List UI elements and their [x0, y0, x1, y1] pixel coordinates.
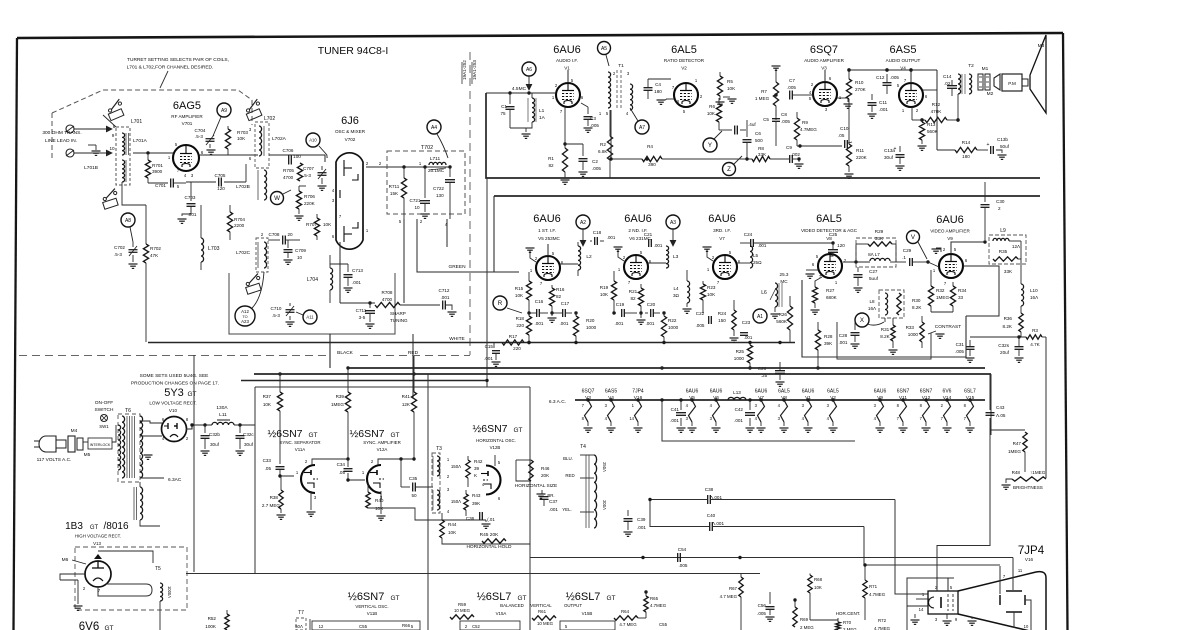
wire plate V12B right — [495, 452, 530, 466]
svg-text:6SN7: 6SN7 — [920, 389, 933, 395]
test point R — [493, 296, 507, 310]
svg-text:C706: C706 — [283, 148, 294, 153]
svg-text:V10: V10 — [169, 408, 178, 413]
svg-text:300 OHM TRANS.: 300 OHM TRANS. — [42, 130, 81, 136]
svg-text:C710: C710 — [271, 306, 282, 311]
svg-text:3900: 3900 — [152, 169, 163, 174]
svg-text:C55: C55 — [659, 622, 668, 627]
main bus rail2 — [254, 373, 991, 375]
svg-text:C721: C721 — [410, 198, 421, 203]
svg-text:4.7 MEG: 4.7 MEG — [720, 594, 738, 599]
CRT horizontal deflection plates — [999, 595, 1001, 605]
svg-text:.1: .1 — [902, 255, 906, 260]
CRT neck — [928, 591, 958, 614]
svg-text:HOR.CENT.: HOR.CENT. — [836, 611, 861, 616]
svg-text:L701A: L701A — [133, 138, 148, 144]
vertical line from tuner to bottom — [193, 355, 195, 572]
svg-text:SW1: SW1 — [99, 424, 109, 429]
svg-text:33K: 33K — [1004, 269, 1013, 274]
svg-text:220: 220 — [513, 346, 521, 351]
test point Z — [723, 163, 736, 176]
ground T6 center — [145, 451, 152, 453]
svg-text:C17: C17 — [561, 301, 570, 306]
video out enclosure lines — [802, 280, 966, 357]
svg-text:6AU6: 6AU6 — [553, 44, 581, 56]
svg-text:V16: V16 — [1025, 557, 1034, 562]
svg-text:R9: R9 — [802, 120, 808, 125]
svg-text:½6SL7: ½6SL7 — [566, 591, 601, 603]
sync enclosure box — [254, 387, 256, 574]
svg-text:L10: L10 — [1030, 288, 1038, 293]
svg-text:10: 10 — [1024, 624, 1029, 629]
heater bus junction dots — [586, 398, 589, 401]
svg-text:.5-3: .5-3 — [195, 134, 203, 139]
wire R701 top — [147, 155, 149, 160]
wire right column vert — [960, 275, 988, 277]
svg-text:C7: C7 — [789, 78, 795, 83]
svg-text:L2: L2 — [586, 254, 592, 260]
wire V2 plate top — [650, 78, 674, 88]
svg-text:10K: 10K — [448, 530, 457, 535]
speaker cone M3 — [1030, 35, 1046, 113]
svg-text:SYNC. SEPARATOR: SYNC. SEPARATOR — [280, 440, 321, 445]
svg-text:220: 220 — [516, 323, 524, 328]
svg-text:390: 390 — [648, 162, 656, 167]
svg-text:L1: L1 — [539, 108, 545, 114]
dashed vertical chassis divider — [469, 52, 471, 355]
svg-text:10 MEG: 10 MEG — [537, 621, 554, 626]
svg-text:120: 120 — [217, 186, 225, 191]
svg-text:5Y3: 5Y3 — [164, 387, 184, 399]
wire V9 screen to L9 — [951, 242, 985, 254]
svg-text:A5: A5 — [601, 46, 607, 52]
wire if plate V5 to V6 — [560, 263, 578, 265]
svg-text:20K: 20K — [541, 473, 550, 478]
svg-text:A1: A1 — [757, 314, 763, 320]
svg-text:GT: GT — [308, 432, 317, 439]
svg-text:130: 130 — [436, 193, 444, 198]
arrow Y — [714, 131, 722, 139]
svg-text:L3: L3 — [673, 254, 679, 260]
svg-text:C55: C55 — [359, 624, 368, 629]
B+ rail upper — [486, 93, 1040, 178]
svg-text:C40: C40 — [707, 513, 716, 518]
arrow R — [507, 308, 522, 313]
svg-text:V9: V9 — [947, 236, 953, 241]
tube V3 6SQ7 — [813, 82, 837, 106]
arrow A9 to C704 — [213, 117, 221, 136]
ground C19 C20 — [640, 313, 642, 318]
tube V4 6AS5 — [899, 83, 923, 107]
svg-text:C12: C12 — [876, 75, 885, 80]
svg-text:L703: L703 — [208, 246, 220, 252]
svg-text:33: 33 — [958, 295, 964, 300]
arrow V — [918, 242, 927, 259]
wire c16 row — [529, 312, 536, 314]
svg-text:L704: L704 — [307, 277, 318, 283]
tube V13 1B3 — [85, 561, 111, 587]
svg-text:L5: L5 — [753, 253, 759, 258]
coil L702C — [264, 242, 267, 268]
page frame border — [17, 33, 1063, 38]
wire V12A plate right — [413, 440, 415, 452]
svg-text:R30: R30 — [912, 298, 921, 303]
svg-text:C37: C37 — [549, 499, 558, 504]
svg-text:.5-3: .5-3 — [114, 252, 122, 257]
svg-text:10K: 10K — [237, 136, 246, 141]
wire r68 bottom — [810, 619, 838, 621]
svg-text:.001: .001 — [734, 418, 743, 423]
svg-text:6V6: 6V6 — [79, 621, 99, 630]
svg-text:.001: .001 — [188, 212, 197, 217]
main bus rail1 — [348, 367, 985, 369]
svg-text:1000: 1000 — [668, 325, 679, 330]
vertical line x428 — [427, 374, 429, 630]
svg-text:↑1MEG: ↑1MEG — [1030, 470, 1046, 475]
CRT pin1 pin14 wires — [916, 598, 930, 600]
svg-text:10K: 10K — [814, 585, 822, 590]
svg-text:L8: L8 — [869, 299, 875, 304]
wire V8 to L7 — [843, 261, 870, 263]
ground R7 top — [775, 68, 777, 72]
svg-text:V13: V13 — [93, 541, 101, 546]
svg-text:C38: C38 — [705, 487, 714, 492]
svg-text:V701: V701 — [182, 121, 193, 126]
svg-text:AUDIO OUTPUT: AUDIO OUTPUT — [886, 58, 921, 63]
svg-text:R66: R66 — [402, 623, 411, 628]
svg-text:.001: .001 — [670, 418, 679, 423]
svg-text:8.2K: 8.2K — [912, 305, 922, 310]
wire T5 down — [159, 601, 161, 630]
coil L702B — [264, 170, 267, 200]
svg-text:M3: M3 — [1038, 43, 1045, 49]
svg-text:.001: .001 — [637, 525, 646, 530]
svg-text:R704: R704 — [234, 217, 245, 222]
wire V701 grid left — [133, 152, 173, 154]
test point A7 — [635, 120, 649, 134]
svg-text:C709: C709 — [295, 248, 306, 253]
svg-text:V3: V3 — [821, 66, 827, 71]
svg-text:GT: GT — [390, 432, 399, 439]
svg-text:C705: C705 — [215, 173, 226, 178]
ground L1 — [521, 127, 532, 129]
svg-text:19A1-253: 19A1-253 — [472, 60, 477, 80]
wire V9 plate right — [963, 266, 999, 316]
wire T4 red — [580, 477, 594, 479]
tube V10 5Y3GT — [162, 417, 187, 442]
tuner turret dashed outline — [52, 90, 252, 113]
wire x330 tuner to bottom — [329, 334, 331, 368]
svg-text:GT: GT — [517, 595, 526, 602]
wire bottom right of vert — [638, 617, 646, 619]
svg-text:.001: .001 — [549, 507, 558, 512]
svg-text:C32s: C32s — [998, 343, 1009, 348]
svg-text:7JP4: 7JP4 — [632, 389, 644, 395]
svg-text:270K: 270K — [855, 87, 867, 92]
wire brightness feed down to crt — [937, 430, 990, 578]
svg-text:.05: .05 — [838, 133, 845, 138]
wire C34 to V12A grid — [348, 473, 365, 480]
svg-text:.005: .005 — [781, 119, 790, 124]
svg-text:R21: R21 — [629, 289, 638, 294]
svg-text:GT: GT — [513, 427, 522, 434]
svg-text:6AG5: 6AG5 — [173, 100, 201, 112]
coil L8 dashed box — [879, 290, 904, 318]
svg-text:6.3 A.C.: 6.3 A.C. — [549, 399, 566, 405]
B+ rail lower — [494, 195, 1040, 197]
svg-text:YEL.: YEL. — [562, 507, 572, 512]
svg-text:A2: A2 — [580, 220, 586, 226]
test point X — [855, 313, 869, 327]
svg-text:.001: .001 — [535, 321, 544, 326]
wire T3 to grid — [440, 486, 460, 488]
svg-text:V11A: V11A — [295, 447, 305, 452]
svg-text:V12A: V12A — [377, 447, 388, 452]
wire if plate V6 to V7 — [648, 262, 666, 264]
rail corner right — [1039, 178, 1041, 196]
svg-text:R12: R12 — [932, 102, 941, 107]
svg-text:1B3: 1B3 — [65, 521, 83, 532]
svg-text:L4: L4 — [673, 286, 679, 291]
svg-text:.001: .001 — [441, 295, 450, 300]
V5 grid ground — [530, 250, 536, 262]
test point A9 — [217, 103, 231, 117]
coil L3 — [666, 246, 669, 268]
svg-text:4700: 4700 — [283, 175, 294, 180]
svg-text:T1: T1 — [618, 63, 624, 69]
wire V9 plate up — [962, 260, 988, 262]
wire T702 pin4 down green — [446, 219, 448, 247]
svg-text:.001: .001 — [560, 321, 569, 326]
svg-text:R701: R701 — [152, 163, 163, 168]
wire speaker return — [957, 94, 959, 120]
V7 grid ground — [707, 249, 713, 261]
svg-text:.005: .005 — [590, 123, 599, 128]
arrow W — [283, 190, 291, 194]
svg-text:VERTICAL: VERTICAL — [530, 603, 552, 608]
V12A plate to R41 — [378, 459, 414, 465]
svg-text:C32c: C32c — [243, 432, 254, 437]
turret switch lower A12 — [241, 274, 265, 297]
svg-text:R44: R44 — [448, 522, 457, 527]
V13 filament loop — [98, 584, 152, 596]
svg-text:HORIZONTAL HOLD: HORIZONTAL HOLD — [466, 544, 512, 550]
svg-text:4.7MEG: 4.7MEG — [650, 603, 667, 608]
V10 output wire — [186, 425, 212, 429]
svg-text:GT: GT — [390, 595, 399, 602]
svg-text:C8: C8 — [781, 112, 787, 117]
svg-text:19A1-252: 19A1-252 — [462, 60, 467, 80]
svg-text:C5: C5 — [763, 117, 769, 122]
svg-text:T2: T2 — [968, 63, 974, 69]
small box V15B — [560, 621, 615, 630]
svg-text:6AL5: 6AL5 — [827, 389, 839, 395]
svg-text:150Λ: 150Λ — [451, 499, 461, 504]
svg-text:Z: Z — [727, 166, 731, 173]
svg-text:C16: C16 — [535, 299, 544, 304]
arrow A5 — [606, 55, 609, 66]
svg-text:.001: .001 — [607, 235, 616, 240]
wire T4 bottom to left — [649, 480, 651, 540]
svg-text:GT: GT — [90, 525, 99, 531]
V8 grid ground — [812, 268, 818, 276]
svg-text:4.7MEG: 4.7MEG — [800, 127, 817, 132]
svg-text:SHARP: SHARP — [390, 311, 406, 316]
svg-text:R72: R72 — [878, 618, 887, 623]
svg-text:V5 253MC: V5 253MC — [538, 236, 560, 241]
svg-text:.4uf: .4uf — [748, 122, 756, 127]
svg-text:4.7 MEG: 4.7 MEG — [619, 622, 637, 627]
test point W — [271, 192, 284, 205]
test point A3 — [666, 215, 680, 229]
svg-text:R39: R39 — [336, 394, 345, 399]
arrow A3 — [672, 229, 674, 244]
svg-text:6SL7: 6SL7 — [964, 389, 976, 395]
svg-text:A3: A3 — [670, 220, 676, 226]
arrow A12 to L702C — [252, 272, 264, 308]
rail junction dots — [278, 372, 281, 375]
svg-text:Λ.001: Λ.001 — [712, 521, 724, 526]
svg-text:W: W — [274, 195, 280, 202]
tube V1 6AU6 — [556, 83, 580, 107]
svg-text:.001: .001 — [758, 243, 767, 248]
svg-text:R6: R6 — [709, 104, 715, 109]
svg-text:R32: R32 — [936, 288, 945, 293]
svg-text:6AU6: 6AU6 — [755, 389, 768, 395]
arrow A6 down — [528, 76, 530, 88]
ground V3 k — [837, 97, 848, 99]
wire T4 blu — [580, 454, 594, 456]
svg-text:12Λ: 12Λ — [1012, 244, 1021, 249]
wire red drop — [412, 334, 414, 398]
svg-text:V702: V702 — [345, 137, 356, 142]
wire 6J6 cathode down — [339, 242, 341, 303]
svg-text:180: 180 — [962, 154, 970, 159]
svg-text:T702: T702 — [421, 145, 433, 151]
svg-text:C22: C22 — [696, 311, 705, 316]
tube V9 6AU6 — [939, 254, 963, 278]
svg-text:A7: A7 — [639, 125, 645, 131]
svg-text:+: + — [894, 146, 897, 152]
svg-text:L702C: L702C — [236, 250, 251, 256]
svg-text:33K: 33K — [875, 236, 884, 241]
svg-text:GT: GT — [187, 391, 196, 398]
svg-text:.005: .005 — [955, 349, 964, 354]
svg-text:1MEG: 1MEG — [331, 402, 344, 407]
svg-text:R47: R47 — [1013, 441, 1022, 446]
svg-text:R23: R23 — [707, 285, 716, 290]
svg-text:L702: L702 — [264, 116, 275, 122]
svg-text:5uuf: 5uuf — [869, 276, 879, 281]
svg-text:1MEG: 1MEG — [1008, 449, 1021, 454]
svg-text:C29: C29 — [903, 248, 912, 253]
svg-text:.005: .005 — [592, 166, 601, 171]
video rail y342 right part — [795, 342, 802, 344]
svg-text:C27: C27 — [869, 269, 878, 274]
svg-text:.001: .001 — [744, 335, 753, 340]
svg-text:R43: R43 — [472, 493, 481, 498]
svg-text:PRODUCTION CHANGES ON PAGE 17.: PRODUCTION CHANGES ON PAGE 17. — [131, 381, 219, 387]
heater bus left tail — [574, 392, 576, 400]
svg-text:R706: R706 — [304, 194, 315, 199]
chassis dashed line left — [19, 355, 330, 357]
svg-text:9: 9 — [112, 133, 115, 138]
svg-text:L701B: L701B — [84, 165, 98, 171]
svg-text:R34: R34 — [958, 288, 967, 293]
svg-text:50Λ: 50Λ — [295, 624, 303, 629]
svg-text:C36: C36 — [466, 516, 475, 521]
svg-text:R67: R67 — [729, 586, 738, 591]
wire y526 long — [650, 526, 709, 528]
wire T702 pin5 down — [403, 219, 405, 303]
svg-text:/8016: /8016 — [103, 521, 128, 532]
svg-text:8.2K: 8.2K — [880, 334, 890, 339]
svg-text:V15B: V15B — [582, 611, 593, 616]
CRT enclosure wire left — [907, 578, 954, 630]
svg-text:15K: 15K — [390, 191, 399, 196]
svg-text:T4: T4 — [580, 444, 586, 450]
svg-text:Λ.05: Λ.05 — [996, 413, 1006, 418]
CRT heater dashes — [947, 594, 949, 611]
test point Y — [703, 138, 717, 152]
svg-text:R33: R33 — [906, 325, 915, 330]
svg-text:R61: R61 — [538, 609, 547, 614]
svg-text:560K: 560K — [776, 319, 788, 324]
svg-text:RED: RED — [565, 473, 574, 478]
svg-text:R13: R13 — [927, 122, 936, 127]
svg-text:R8: R8 — [758, 146, 764, 151]
capacitor C708 — [268, 239, 280, 241]
svg-text:.005: .005 — [696, 323, 705, 328]
svg-text:R28: R28 — [824, 334, 833, 339]
svg-text:RF AMPLIFIER: RF AMPLIFIER — [171, 114, 203, 119]
svg-text:SYNC. AMPLIFIER: SYNC. AMPLIFIER — [363, 440, 401, 445]
svg-text:3RD. I.F.: 3RD. I.F. — [713, 228, 731, 233]
wire T1 to V1 plate — [581, 89, 607, 91]
svg-text:11: 11 — [1018, 568, 1023, 573]
svg-text:1MEG: 1MEG — [936, 295, 949, 300]
svg-text:C13b: C13b — [997, 137, 1008, 142]
rail drop x487 — [486, 178, 488, 387]
tube V7 6AU6 — [713, 255, 737, 279]
wire L701 top — [103, 115, 116, 127]
wire V3 plate — [824, 70, 826, 82]
svg-text:C35: C35 — [409, 476, 418, 481]
svg-text:R68: R68 — [814, 577, 823, 582]
speaker PM — [994, 74, 1000, 90]
svg-text:10K: 10K — [600, 292, 609, 297]
svg-text:47K: 47K — [150, 253, 159, 258]
svg-text:39K: 39K — [472, 501, 481, 506]
test point A2 — [576, 215, 590, 229]
svg-text:16Λ: 16Λ — [868, 306, 877, 311]
svg-text:INTERLOCK: INTERLOCK — [90, 443, 111, 447]
turret switch lower left — [98, 189, 122, 212]
interlock box — [88, 438, 112, 449]
svg-text:L702B: L702B — [236, 184, 250, 190]
coil L702 box — [255, 122, 269, 168]
svg-text:R42: R42 — [474, 459, 483, 464]
svg-text:.5-3: .5-3 — [272, 313, 280, 318]
line y557 long — [530, 557, 1013, 559]
CRT cathode — [929, 597, 934, 608]
heater bus — [575, 399, 985, 401]
svg-text:V15A: V15A — [496, 611, 507, 616]
svg-text:14: 14 — [919, 607, 924, 612]
svg-text:C704: C704 — [195, 128, 206, 133]
svg-text:SWITCH: SWITCH — [95, 407, 114, 413]
svg-text:TURRET SETTING SELECTS PAIR OF: TURRET SETTING SELECTS PAIR OF COILS, — [127, 57, 229, 63]
